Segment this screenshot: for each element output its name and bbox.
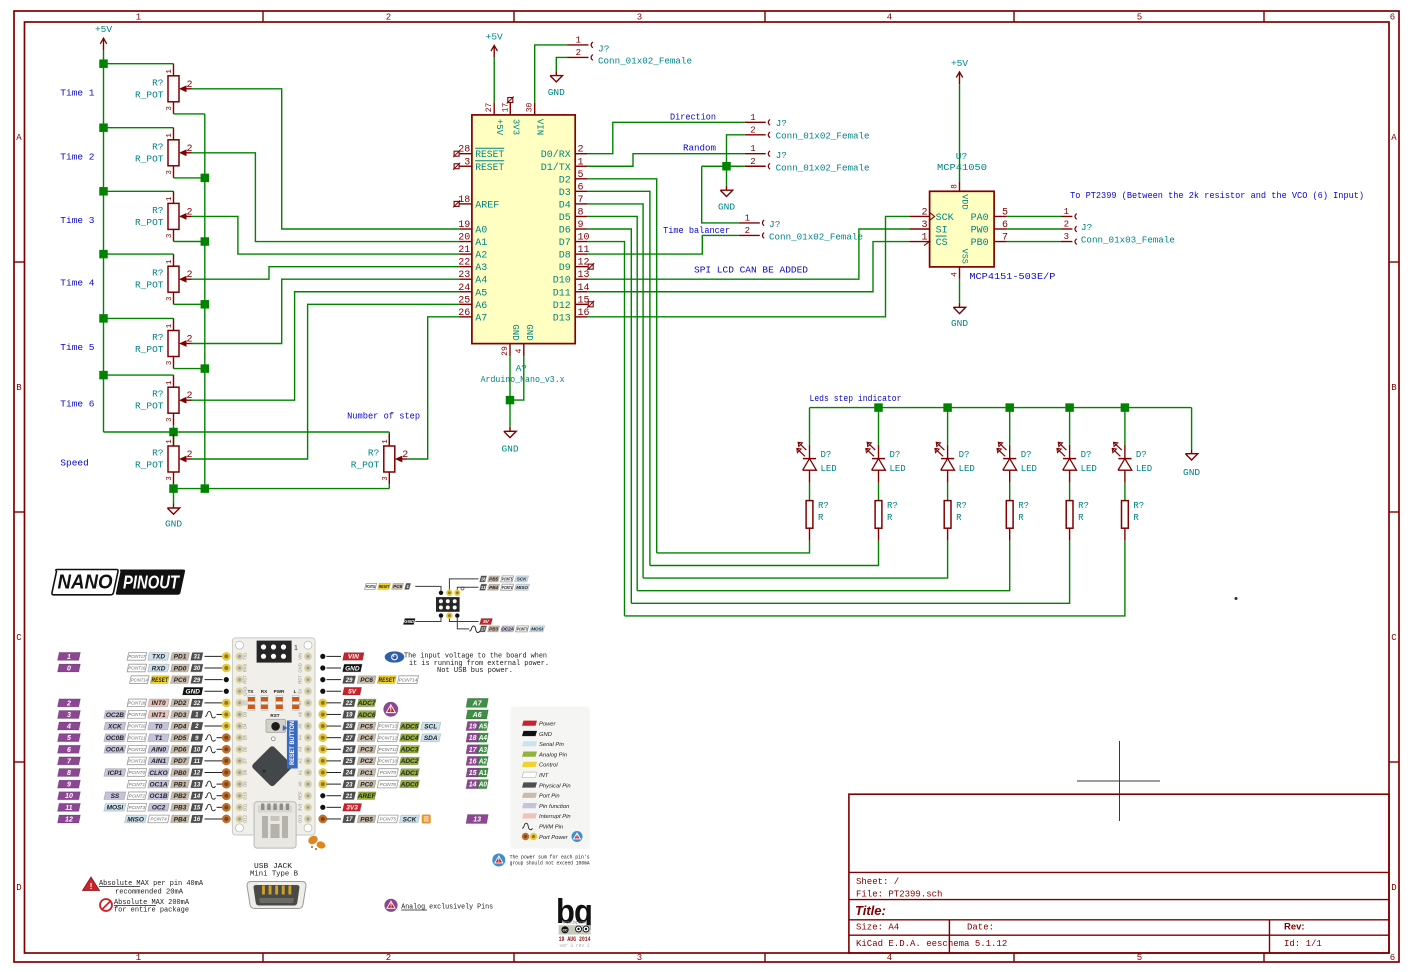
svg-text:PD4: PD4: [174, 723, 187, 730]
svg-text:27: 27: [485, 103, 494, 113]
svg-text:2: 2: [576, 48, 581, 58]
svg-text:24: 24: [458, 283, 470, 294]
svg-text:1: 1: [166, 259, 174, 264]
svg-text:Time 6: Time 6: [60, 399, 95, 410]
svg-text:RESET: RESET: [379, 584, 390, 589]
svg-text:File: PT2399.sch: File: PT2399.sch: [856, 890, 942, 900]
svg-text:LED: LED: [1081, 464, 1097, 474]
svg-text:7: 7: [1002, 233, 1008, 244]
svg-text:3: 3: [166, 296, 174, 301]
svg-text:R?: R?: [152, 205, 163, 216]
svg-text:Analog Pin: Analog Pin: [538, 752, 567, 758]
svg-text:Port Power: Port Power: [539, 835, 569, 841]
svg-text:D4: D4: [559, 200, 571, 211]
svg-text:8: 8: [578, 207, 584, 218]
svg-text:J?: J?: [776, 118, 787, 129]
svg-text:A: A: [16, 133, 22, 143]
svg-text:Direction: Direction: [670, 111, 716, 122]
svg-text:2: 2: [386, 13, 391, 23]
svg-text:ADC4: ADC4: [400, 735, 419, 742]
svg-text:Serial Pin: Serial Pin: [539, 742, 564, 748]
svg-text:1: 1: [166, 439, 174, 444]
svg-text:1: 1: [406, 584, 409, 589]
svg-text:R_POT: R_POT: [135, 460, 164, 471]
svg-text:12: 12: [65, 816, 73, 823]
svg-text:AIN0: AIN0: [150, 747, 166, 754]
svg-text:1: 1: [136, 13, 141, 23]
svg-text:PD7: PD7: [174, 758, 187, 765]
svg-text:PB0: PB0: [174, 770, 187, 777]
svg-text:PB3: PB3: [489, 627, 498, 632]
svg-text:J?: J?: [776, 150, 787, 161]
svg-text:R: R: [1018, 513, 1024, 523]
svg-text:Id: 1/1: Id: 1/1: [1284, 939, 1322, 949]
svg-text:A5: A5: [478, 724, 487, 731]
svg-text:RX: RX: [261, 689, 268, 694]
svg-text:RXD: RXD: [152, 665, 166, 672]
svg-text:R?: R?: [152, 448, 163, 459]
svg-text:PINOUT: PINOUT: [123, 573, 181, 593]
svg-text:29: 29: [345, 678, 353, 684]
svg-text:Conn_01x03_Female: Conn_01x03_Female: [1081, 235, 1175, 246]
svg-text:A?: A?: [516, 363, 527, 374]
svg-text:A1: A1: [475, 238, 487, 249]
svg-text:Interrupt Pin: Interrupt Pin: [539, 814, 571, 820]
svg-text:Size: A4: Size: A4: [856, 923, 899, 933]
svg-text:4: 4: [887, 13, 892, 23]
svg-text:R_POT: R_POT: [351, 460, 380, 471]
svg-text:R?: R?: [152, 268, 163, 279]
svg-text:26: 26: [345, 747, 353, 753]
svg-text:ADC3: ADC3: [400, 747, 419, 754]
svg-text:6: 6: [1390, 13, 1395, 23]
svg-text:PCINT17: PCINT17: [128, 654, 145, 659]
svg-text:Leds step indicator: Leds step indicator: [810, 393, 902, 404]
svg-text:13: 13: [194, 782, 201, 788]
svg-text:R?: R?: [1133, 501, 1144, 511]
svg-text:D7: D7: [243, 758, 248, 764]
svg-text:R?: R?: [152, 389, 163, 400]
svg-text:RESET: RESET: [475, 150, 504, 161]
svg-text:R_POT: R_POT: [135, 401, 164, 412]
svg-text:OC1A: OC1A: [150, 781, 168, 788]
svg-text:ADC0: ADC0: [400, 781, 419, 788]
svg-text:R?: R?: [368, 448, 379, 459]
svg-text:18: 18: [469, 735, 477, 742]
svg-text:R_POT: R_POT: [135, 280, 164, 291]
svg-text:RESET BUTTON: RESET BUTTON: [290, 721, 296, 765]
svg-text:PCINT13: PCINT13: [379, 724, 398, 729]
svg-text:C: C: [16, 633, 22, 643]
svg-text:PWR: PWR: [274, 689, 285, 694]
svg-text:PCINT22: PCINT22: [128, 747, 145, 752]
svg-text:A4: A4: [475, 276, 487, 287]
svg-text:recommended 20mA: recommended 20mA: [115, 889, 184, 897]
svg-text:Speed: Speed: [60, 458, 89, 469]
svg-text:Time balancer: Time balancer: [663, 225, 730, 236]
svg-text:4: 4: [951, 272, 960, 277]
svg-text:MISO: MISO: [516, 585, 528, 590]
svg-text:5: 5: [1137, 953, 1142, 963]
svg-text:8: 8: [67, 770, 71, 777]
svg-text:3: 3: [637, 953, 642, 963]
svg-text:2: 2: [66, 700, 71, 707]
svg-text:PA0: PA0: [971, 213, 989, 224]
svg-text:A1: A1: [478, 770, 487, 777]
svg-text:GND: GND: [165, 519, 182, 530]
svg-text:A: A: [1391, 133, 1397, 143]
svg-text:D2: D2: [559, 175, 571, 186]
svg-text:1: 1: [166, 323, 174, 328]
svg-text:PWM Pin: PWM Pin: [539, 825, 563, 831]
svg-text:A5: A5: [298, 723, 303, 729]
svg-text:Not USB bus power.: Not USB bus power.: [437, 667, 513, 675]
svg-text:R?: R?: [152, 77, 163, 88]
svg-text:VIN: VIN: [535, 119, 545, 135]
svg-text:23: 23: [458, 270, 470, 281]
svg-text:Time 2: Time 2: [60, 151, 95, 162]
svg-text:B: B: [1391, 383, 1397, 393]
svg-text:D2: D2: [243, 699, 248, 705]
svg-text:4: 4: [887, 953, 892, 963]
svg-text:R?: R?: [152, 332, 163, 343]
svg-text:10: 10: [194, 747, 201, 753]
svg-text:J?: J?: [769, 219, 780, 230]
svg-text:TX1: TX1: [243, 652, 248, 660]
svg-text:A6: A6: [475, 301, 487, 312]
svg-text:GND: GND: [718, 202, 735, 213]
svg-text:PCINT0: PCINT0: [129, 770, 146, 775]
svg-text:KiCad E.D.A. eeschema 5.1.12: KiCad E.D.A. eeschema 5.1.12: [856, 939, 1007, 949]
svg-text:17: 17: [501, 103, 510, 113]
svg-text:AIN1: AIN1: [150, 758, 166, 765]
svg-text:3: 3: [166, 170, 174, 175]
svg-text:RST: RST: [243, 675, 248, 684]
svg-text:7: 7: [578, 195, 584, 206]
svg-text:R?: R?: [152, 141, 163, 152]
svg-text:Random: Random: [683, 143, 716, 154]
svg-text:T0: T0: [155, 723, 163, 730]
svg-text:PC4: PC4: [360, 735, 373, 742]
svg-text:2: 2: [750, 125, 755, 135]
svg-text:Conn_01x02_Female: Conn_01x02_Female: [598, 56, 692, 67]
svg-text:3: 3: [67, 712, 71, 719]
svg-text:2: 2: [1064, 220, 1069, 230]
svg-text:D11: D11: [553, 288, 571, 299]
svg-text:R_POT: R_POT: [135, 344, 164, 355]
svg-text:Time 1: Time 1: [60, 87, 95, 98]
svg-text:TXD: TXD: [152, 654, 165, 661]
svg-text:OC0A: OC0A: [106, 747, 124, 754]
svg-text:23: 23: [345, 782, 353, 788]
svg-text:Port Pin: Port Pin: [539, 794, 560, 800]
svg-text:INT0: INT0: [152, 700, 166, 707]
svg-text:group should not exceed 100mA: group should not exceed 100mA: [510, 861, 591, 867]
svg-text:SS: SS: [111, 793, 120, 800]
svg-text:A3: A3: [475, 263, 487, 274]
svg-text:GND: GND: [510, 324, 520, 340]
svg-text:13: 13: [473, 816, 481, 823]
svg-text:CLKO: CLKO: [149, 770, 167, 777]
svg-text:25: 25: [345, 759, 353, 765]
svg-text:SPI LCD CAN BE ADDED: SPI LCD CAN BE ADDED: [694, 265, 808, 276]
svg-text:3V3: 3V3: [510, 119, 520, 135]
svg-text:R: R: [956, 513, 962, 523]
svg-text:17: 17: [469, 747, 478, 754]
svg-text:R?: R?: [1018, 501, 1029, 511]
svg-text:D10: D10: [553, 276, 571, 287]
svg-text:A0: A0: [475, 226, 487, 237]
svg-text:14: 14: [469, 782, 477, 789]
svg-text:3: 3: [166, 360, 174, 365]
svg-text:29: 29: [193, 678, 201, 684]
svg-text:10: 10: [65, 793, 73, 800]
svg-text:GND: GND: [501, 444, 518, 455]
svg-text:2: 2: [386, 953, 391, 963]
svg-text:RX0: RX0: [243, 663, 248, 672]
svg-text:Physical Pin: Physical Pin: [539, 783, 571, 789]
svg-text:16: 16: [194, 817, 201, 823]
svg-text:D?: D?: [959, 450, 970, 460]
svg-text:LED: LED: [821, 464, 837, 474]
svg-text:MOSI: MOSI: [531, 627, 543, 632]
svg-text:PD5: PD5: [174, 735, 187, 742]
svg-text:2: 2: [750, 157, 755, 167]
svg-text:SCK: SCK: [936, 213, 954, 224]
svg-text:PD0: PD0: [174, 665, 187, 672]
svg-text:D?: D?: [1021, 450, 1032, 460]
svg-text:26: 26: [458, 308, 470, 319]
svg-text:SCK: SCK: [517, 577, 527, 582]
svg-text:1: 1: [166, 196, 174, 201]
svg-text:MOSI: MOSI: [107, 805, 124, 812]
svg-text:Date:: Date:: [967, 923, 994, 933]
svg-text:Arduino_Nano_v3.x: Arduino_Nano_v3.x: [481, 374, 565, 385]
svg-text:D: D: [1391, 883, 1396, 893]
svg-text:U?: U?: [956, 151, 967, 162]
svg-text:3: 3: [382, 476, 390, 481]
svg-text:13: 13: [481, 585, 486, 590]
svg-text:PCINT4: PCINT4: [150, 817, 167, 822]
svg-text:PCINT11: PCINT11: [379, 747, 398, 752]
svg-text:A1: A1: [298, 769, 303, 775]
svg-text:6: 6: [578, 182, 584, 193]
svg-text:GND: GND: [298, 663, 303, 672]
svg-text:ADC2: ADC2: [400, 758, 419, 765]
svg-text:PD1: PD1: [174, 654, 187, 661]
svg-text:PCINT1: PCINT1: [129, 782, 146, 787]
svg-text:PB1: PB1: [174, 781, 187, 788]
svg-text:ADC5: ADC5: [400, 723, 419, 730]
svg-text:17: 17: [346, 817, 353, 823]
svg-text:GND: GND: [539, 732, 552, 738]
svg-text:PCINT3: PCINT3: [129, 805, 146, 810]
svg-text:21: 21: [345, 794, 353, 800]
svg-text:PB4: PB4: [174, 816, 187, 823]
svg-text:SDA: SDA: [424, 735, 438, 742]
svg-text:GND: GND: [524, 324, 534, 340]
svg-text:PCINT3: PCINT3: [517, 627, 528, 632]
svg-text:RESET: RESET: [152, 677, 169, 684]
svg-text:1: 1: [382, 439, 390, 444]
svg-text:Time 3: Time 3: [60, 215, 95, 226]
svg-text:5V: 5V: [298, 688, 303, 693]
svg-text:25: 25: [458, 295, 470, 306]
svg-text:1: 1: [1064, 207, 1069, 217]
svg-text:D12: D12: [243, 814, 248, 822]
svg-text:+5V: +5V: [486, 31, 503, 42]
svg-text:3V3: 3V3: [298, 803, 303, 811]
svg-text:R?: R?: [1078, 501, 1089, 511]
svg-text:D?: D?: [1136, 450, 1147, 460]
svg-text:R?: R?: [818, 501, 829, 511]
svg-text:14: 14: [194, 794, 201, 800]
svg-text:15: 15: [469, 770, 477, 777]
svg-text:D4: D4: [243, 723, 248, 729]
svg-text:11: 11: [65, 805, 72, 812]
svg-text:28: 28: [345, 724, 353, 730]
svg-text:D12: D12: [553, 301, 571, 312]
svg-text:!: !: [390, 707, 392, 714]
svg-text:4: 4: [66, 724, 71, 731]
svg-text:3: 3: [166, 417, 174, 422]
svg-text:MCP41050: MCP41050: [937, 162, 987, 173]
svg-text:5: 5: [1137, 13, 1142, 23]
svg-text:for entire package: for entire package: [114, 907, 189, 915]
svg-text:A4: A4: [298, 734, 303, 740]
svg-text:D3: D3: [243, 711, 248, 717]
svg-text:PCINT19: PCINT19: [128, 712, 145, 717]
svg-text:3: 3: [1064, 232, 1069, 242]
svg-text:B: B: [16, 383, 22, 393]
svg-text:3: 3: [464, 157, 470, 168]
svg-text:16: 16: [469, 758, 477, 765]
svg-text:PCINT16: PCINT16: [128, 666, 145, 671]
svg-text:Rev:: Rev:: [1284, 922, 1305, 933]
svg-text:1: 1: [136, 953, 141, 963]
svg-text:A4: A4: [478, 735, 487, 742]
svg-text:1: 1: [166, 380, 174, 385]
svg-text:A0: A0: [298, 781, 303, 787]
svg-text:PD3: PD3: [174, 712, 187, 719]
svg-text:TX: TX: [248, 689, 255, 694]
svg-text:PCINT20: PCINT20: [128, 724, 145, 729]
svg-text:PCINT9: PCINT9: [380, 770, 397, 775]
svg-text:PC3: PC3: [360, 747, 373, 754]
svg-text:22: 22: [345, 701, 353, 707]
svg-text:D0/RX: D0/RX: [541, 149, 571, 161]
svg-text:ADC1: ADC1: [400, 770, 419, 777]
svg-text:Sheet: /: Sheet: /: [856, 877, 899, 887]
svg-text:A2: A2: [298, 758, 303, 764]
svg-text:D9: D9: [243, 781, 248, 787]
svg-text:PCINT18: PCINT18: [128, 700, 145, 705]
svg-text:A2: A2: [475, 251, 487, 262]
svg-text:PC6: PC6: [360, 677, 373, 684]
svg-text:R_POT: R_POT: [135, 153, 164, 164]
svg-text:PCINT2: PCINT2: [129, 793, 146, 798]
svg-text:1: 1: [750, 144, 755, 154]
svg-text:C: C: [1391, 633, 1397, 643]
svg-text:1: 1: [294, 645, 298, 652]
svg-text:Conn_01x02_Female: Conn_01x02_Female: [776, 163, 870, 174]
svg-text:PC5: PC5: [360, 723, 373, 730]
svg-text:D8: D8: [243, 769, 248, 775]
svg-text:!: !: [90, 881, 93, 891]
svg-text:D6: D6: [559, 226, 571, 237]
svg-text:PW0: PW0: [971, 226, 989, 237]
svg-text:D1/TX: D1/TX: [541, 162, 571, 174]
svg-text:PCINT14: PCINT14: [366, 584, 376, 589]
svg-text:D5: D5: [243, 734, 248, 740]
svg-text:31: 31: [194, 655, 201, 661]
svg-text:30: 30: [526, 103, 535, 113]
svg-text:PD2: PD2: [174, 700, 187, 707]
svg-text:D10: D10: [243, 791, 248, 799]
svg-text:Conn_01x02_Female: Conn_01x02_Female: [776, 131, 870, 142]
svg-text:RESET: RESET: [379, 677, 396, 684]
svg-text:27: 27: [345, 736, 353, 742]
svg-text:PCINT14: PCINT14: [131, 677, 148, 682]
svg-text:A5: A5: [475, 288, 487, 299]
svg-text:www.bq.com: www.bq.com: [563, 920, 587, 925]
svg-text:SCK: SCK: [403, 816, 418, 823]
svg-text:GND: GND: [186, 689, 201, 696]
svg-text:OC2A: OC2A: [501, 627, 514, 632]
svg-text:3: 3: [166, 476, 174, 481]
svg-text:19: 19: [458, 220, 470, 231]
svg-text:2: 2: [921, 207, 927, 218]
svg-text:3: 3: [166, 106, 174, 111]
svg-text:MCP4151-503E/P: MCP4151-503E/P: [969, 271, 1055, 282]
svg-text:1: 1: [166, 133, 174, 138]
svg-text:2: 2: [745, 226, 750, 236]
svg-text:Conn_01x02_Female: Conn_01x02_Female: [769, 231, 863, 242]
svg-text:VDD: VDD: [960, 194, 970, 209]
svg-text:1: 1: [745, 213, 750, 223]
svg-text:D9: D9: [559, 263, 571, 274]
svg-text:PD6: PD6: [174, 747, 187, 754]
svg-text:+5V: +5V: [494, 119, 504, 136]
svg-text:D13: D13: [298, 814, 303, 822]
svg-text:5V: 5V: [483, 619, 490, 624]
svg-text:11: 11: [194, 759, 201, 765]
svg-text:15: 15: [194, 805, 201, 811]
svg-text:PCINT10: PCINT10: [379, 759, 398, 764]
svg-text:A6: A6: [298, 711, 303, 717]
svg-text:PC6: PC6: [174, 677, 187, 684]
svg-text:R: R: [1078, 513, 1084, 523]
svg-text:CS: CS: [936, 238, 948, 249]
svg-text:Mini Type B: Mini Type B: [250, 871, 299, 879]
svg-text:0: 0: [67, 666, 71, 673]
svg-text:2: 2: [194, 724, 199, 730]
svg-text:A7: A7: [472, 700, 483, 707]
svg-text:PB2: PB2: [174, 793, 187, 800]
svg-text:NANO: NANO: [58, 572, 113, 594]
svg-text:22: 22: [458, 258, 470, 269]
svg-text:GND: GND: [951, 318, 968, 329]
svg-text:D13: D13: [553, 313, 571, 324]
svg-text:PB3: PB3: [174, 805, 187, 812]
svg-text:+5V: +5V: [95, 24, 112, 35]
svg-text:PB5: PB5: [360, 816, 373, 823]
svg-text:D11: D11: [243, 803, 248, 811]
svg-text:AREF: AREF: [475, 200, 499, 211]
svg-text:OC1B: OC1B: [150, 793, 168, 800]
svg-text:3: 3: [166, 233, 174, 238]
svg-text:T1: T1: [155, 735, 163, 742]
